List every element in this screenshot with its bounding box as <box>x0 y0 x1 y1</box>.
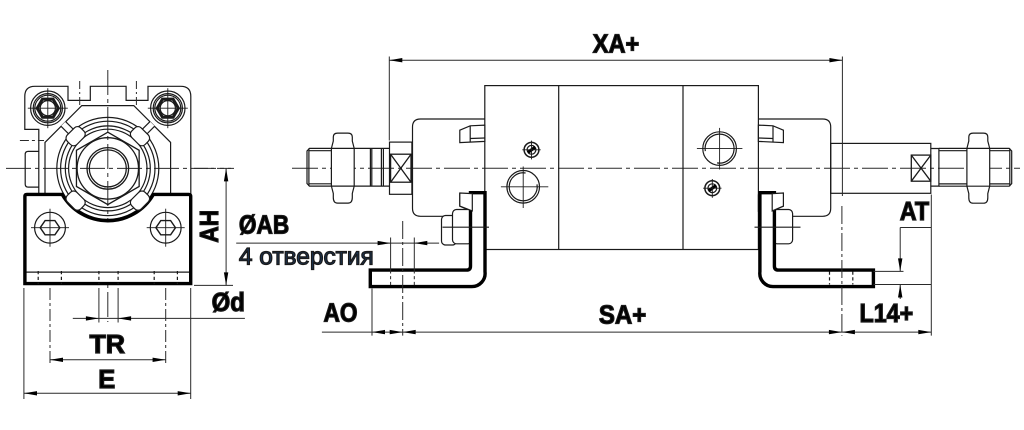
dimension XA+ <box>389 57 842 197</box>
bracket screw right <box>147 209 185 247</box>
threaded rod end left <box>307 148 331 186</box>
dimension AO arrows <box>372 330 385 334</box>
svg-text:SA+: SA+ <box>599 302 646 330</box>
bracket hole centerline right <box>841 206 843 336</box>
wrench flats marker right <box>911 155 931 181</box>
port left <box>501 167 548 209</box>
top screw right <box>148 88 188 128</box>
top screw left <box>28 88 68 128</box>
dimension OAB <box>236 238 439 286</box>
main centerline (right view) <box>292 167 1020 169</box>
vent screw left <box>522 141 540 160</box>
svg-text:TR: TR <box>90 331 126 359</box>
clamp lug SE <box>129 189 152 212</box>
centerline vertical (left view) <box>107 70 109 322</box>
threaded rod end right <box>990 148 1012 186</box>
clamp lug NE <box>129 122 155 148</box>
cap claw left top <box>460 125 485 143</box>
foot lug right <box>773 210 793 244</box>
clamp lug SW <box>64 189 87 212</box>
foot bracket left (bold) <box>370 193 485 287</box>
bottom dimension line <box>322 195 931 336</box>
svg-text:L14+: L14+ <box>860 300 914 328</box>
dimension TR <box>50 288 166 365</box>
dimension L14+ arrows <box>842 330 855 334</box>
bracket hole centerline left <box>402 221 404 336</box>
clamp lug NW <box>61 122 87 148</box>
foot bracket front (bold) <box>25 194 191 283</box>
piston rod right (extended) <box>831 143 931 193</box>
lug bolt line right <box>755 226 801 228</box>
rod left section <box>354 148 389 186</box>
centerline horizontal (left view) <box>6 167 234 169</box>
svg-text:ØAB: ØAB <box>239 212 289 240</box>
rod guide cap left <box>413 119 485 216</box>
right foot hidden hole lines <box>830 272 853 285</box>
cap claw right bottom front face <box>772 193 783 211</box>
piston rod left shoulder <box>390 142 412 194</box>
dimension Od <box>73 288 245 323</box>
svg-text:AO: AO <box>324 300 358 328</box>
svg-text:AH: AH <box>196 210 224 243</box>
cap claw right top <box>758 125 783 143</box>
wrench flats marker left <box>391 154 411 182</box>
base hidden hole lines <box>38 271 177 284</box>
dimension AT <box>874 228 932 300</box>
cap claw left bottom front face <box>460 193 473 211</box>
bracket base step line <box>27 271 190 273</box>
rod guide cap right <box>758 119 830 216</box>
vent screw right <box>703 179 721 198</box>
lug bolt line left <box>443 226 490 228</box>
side slot boss on left edge <box>25 151 39 187</box>
notch centerline 1 <box>79 81 81 105</box>
cap claw right bottom <box>758 194 783 212</box>
dimension SA+ arrows <box>403 330 416 334</box>
rod bore <box>87 148 129 190</box>
cylinder body front outline <box>25 86 191 193</box>
rod right small section <box>931 149 939 187</box>
svg-text:AT: AT <box>900 198 930 226</box>
foot bracket right (bold) <box>760 193 874 287</box>
dimension AH <box>194 168 233 285</box>
notch centerline 2 <box>135 81 137 105</box>
dimension E <box>24 288 191 399</box>
rod nut left <box>331 133 354 203</box>
foot lug left <box>442 210 473 246</box>
svg-text:E: E <box>98 366 115 394</box>
slot centerline left <box>20 140 44 142</box>
cap claw left bottom <box>460 194 485 212</box>
svg-text:4 отверстия: 4 отверстия <box>239 244 374 271</box>
svg-text:XA+: XA+ <box>593 31 640 59</box>
rod nut right <box>967 133 990 203</box>
bracket screw left <box>31 209 69 247</box>
svg-text:Ød: Ød <box>212 289 245 317</box>
cylinder barrel <box>485 86 759 250</box>
threaded section right <box>939 148 967 186</box>
rod nut hexagon front <box>76 132 139 204</box>
port right <box>697 128 743 170</box>
bezel rings <box>57 117 159 219</box>
octagonal bezel <box>45 106 171 232</box>
